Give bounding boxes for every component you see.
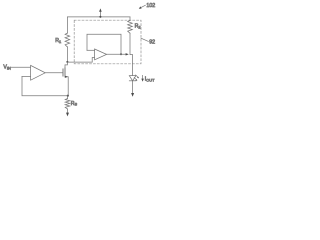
svg-text:RS: RS (71, 101, 78, 107)
transistor Q1 gate bar (62, 69, 64, 76)
op-amp A1 (31, 65, 46, 80)
wire left branch top (66, 17, 68, 33)
wire top rail (67, 16, 130, 18)
LED light arrow 2 (134, 78, 136, 80)
svg-text:R1: R1 (55, 38, 61, 44)
op-amp A2 (95, 49, 107, 60)
transistor Q1 drain lead (65, 62, 67, 68)
junction dot feedback (120, 53, 122, 55)
supply arrowhead (99, 8, 102, 11)
wire A1 inverting input (22, 76, 31, 78)
transistor Q1 source lead (65, 77, 68, 96)
wire A2 inverting input (87, 49, 95, 51)
LED light arrow 1 (136, 75, 139, 77)
wire source node to RS (67, 96, 69, 99)
wire A1 feedback from source node (22, 77, 68, 96)
svg-text:92: 92 (149, 40, 155, 46)
LED D1 triangle (129, 76, 136, 81)
transistor Q1 source arrowhead (65, 76, 68, 78)
wire riser to A2 noninverting input (92, 58, 94, 63)
wire A2 feedback loop (87, 34, 121, 54)
wire VIN to A1 (11, 66, 30, 68)
junction dot drain (66, 61, 68, 63)
resistor R1 (65, 33, 70, 47)
label IOUT arrow (142, 75, 144, 79)
junction dot supply (99, 16, 101, 18)
wire A2 output (107, 53, 126, 55)
wire RS to arrow (67, 109, 69, 113)
LED cathode bar (129, 80, 136, 82)
svg-text:VIN: VIN (3, 65, 11, 71)
arrowhead cathode current (131, 93, 134, 97)
supply arrow (99, 11, 101, 17)
arrowhead A2 output (126, 53, 129, 55)
junction dot source rail (67, 95, 69, 97)
wire drain node to A2 riser (67, 61, 92, 63)
arrowhead RS bottom (66, 113, 69, 117)
wire LED cathode down (132, 81, 134, 94)
resistor RS (65, 99, 70, 110)
svg-text:102: 102 (146, 3, 155, 9)
dashed box 92 (74, 20, 141, 64)
wire R1 to drain node (66, 47, 68, 62)
wire A1 output to gate (45, 72, 63, 74)
wire R2 branch corner (129, 17, 131, 21)
leader line 92 (141, 38, 148, 41)
svg-text:R2: R2 (135, 24, 141, 30)
svg-text:IOUT: IOUT (145, 77, 155, 83)
wire R2 to LED (130, 33, 133, 75)
transistor Q1 channel bar (64, 68, 66, 77)
leader arrow 102 (141, 5, 145, 7)
resistor R2 (128, 20, 133, 33)
